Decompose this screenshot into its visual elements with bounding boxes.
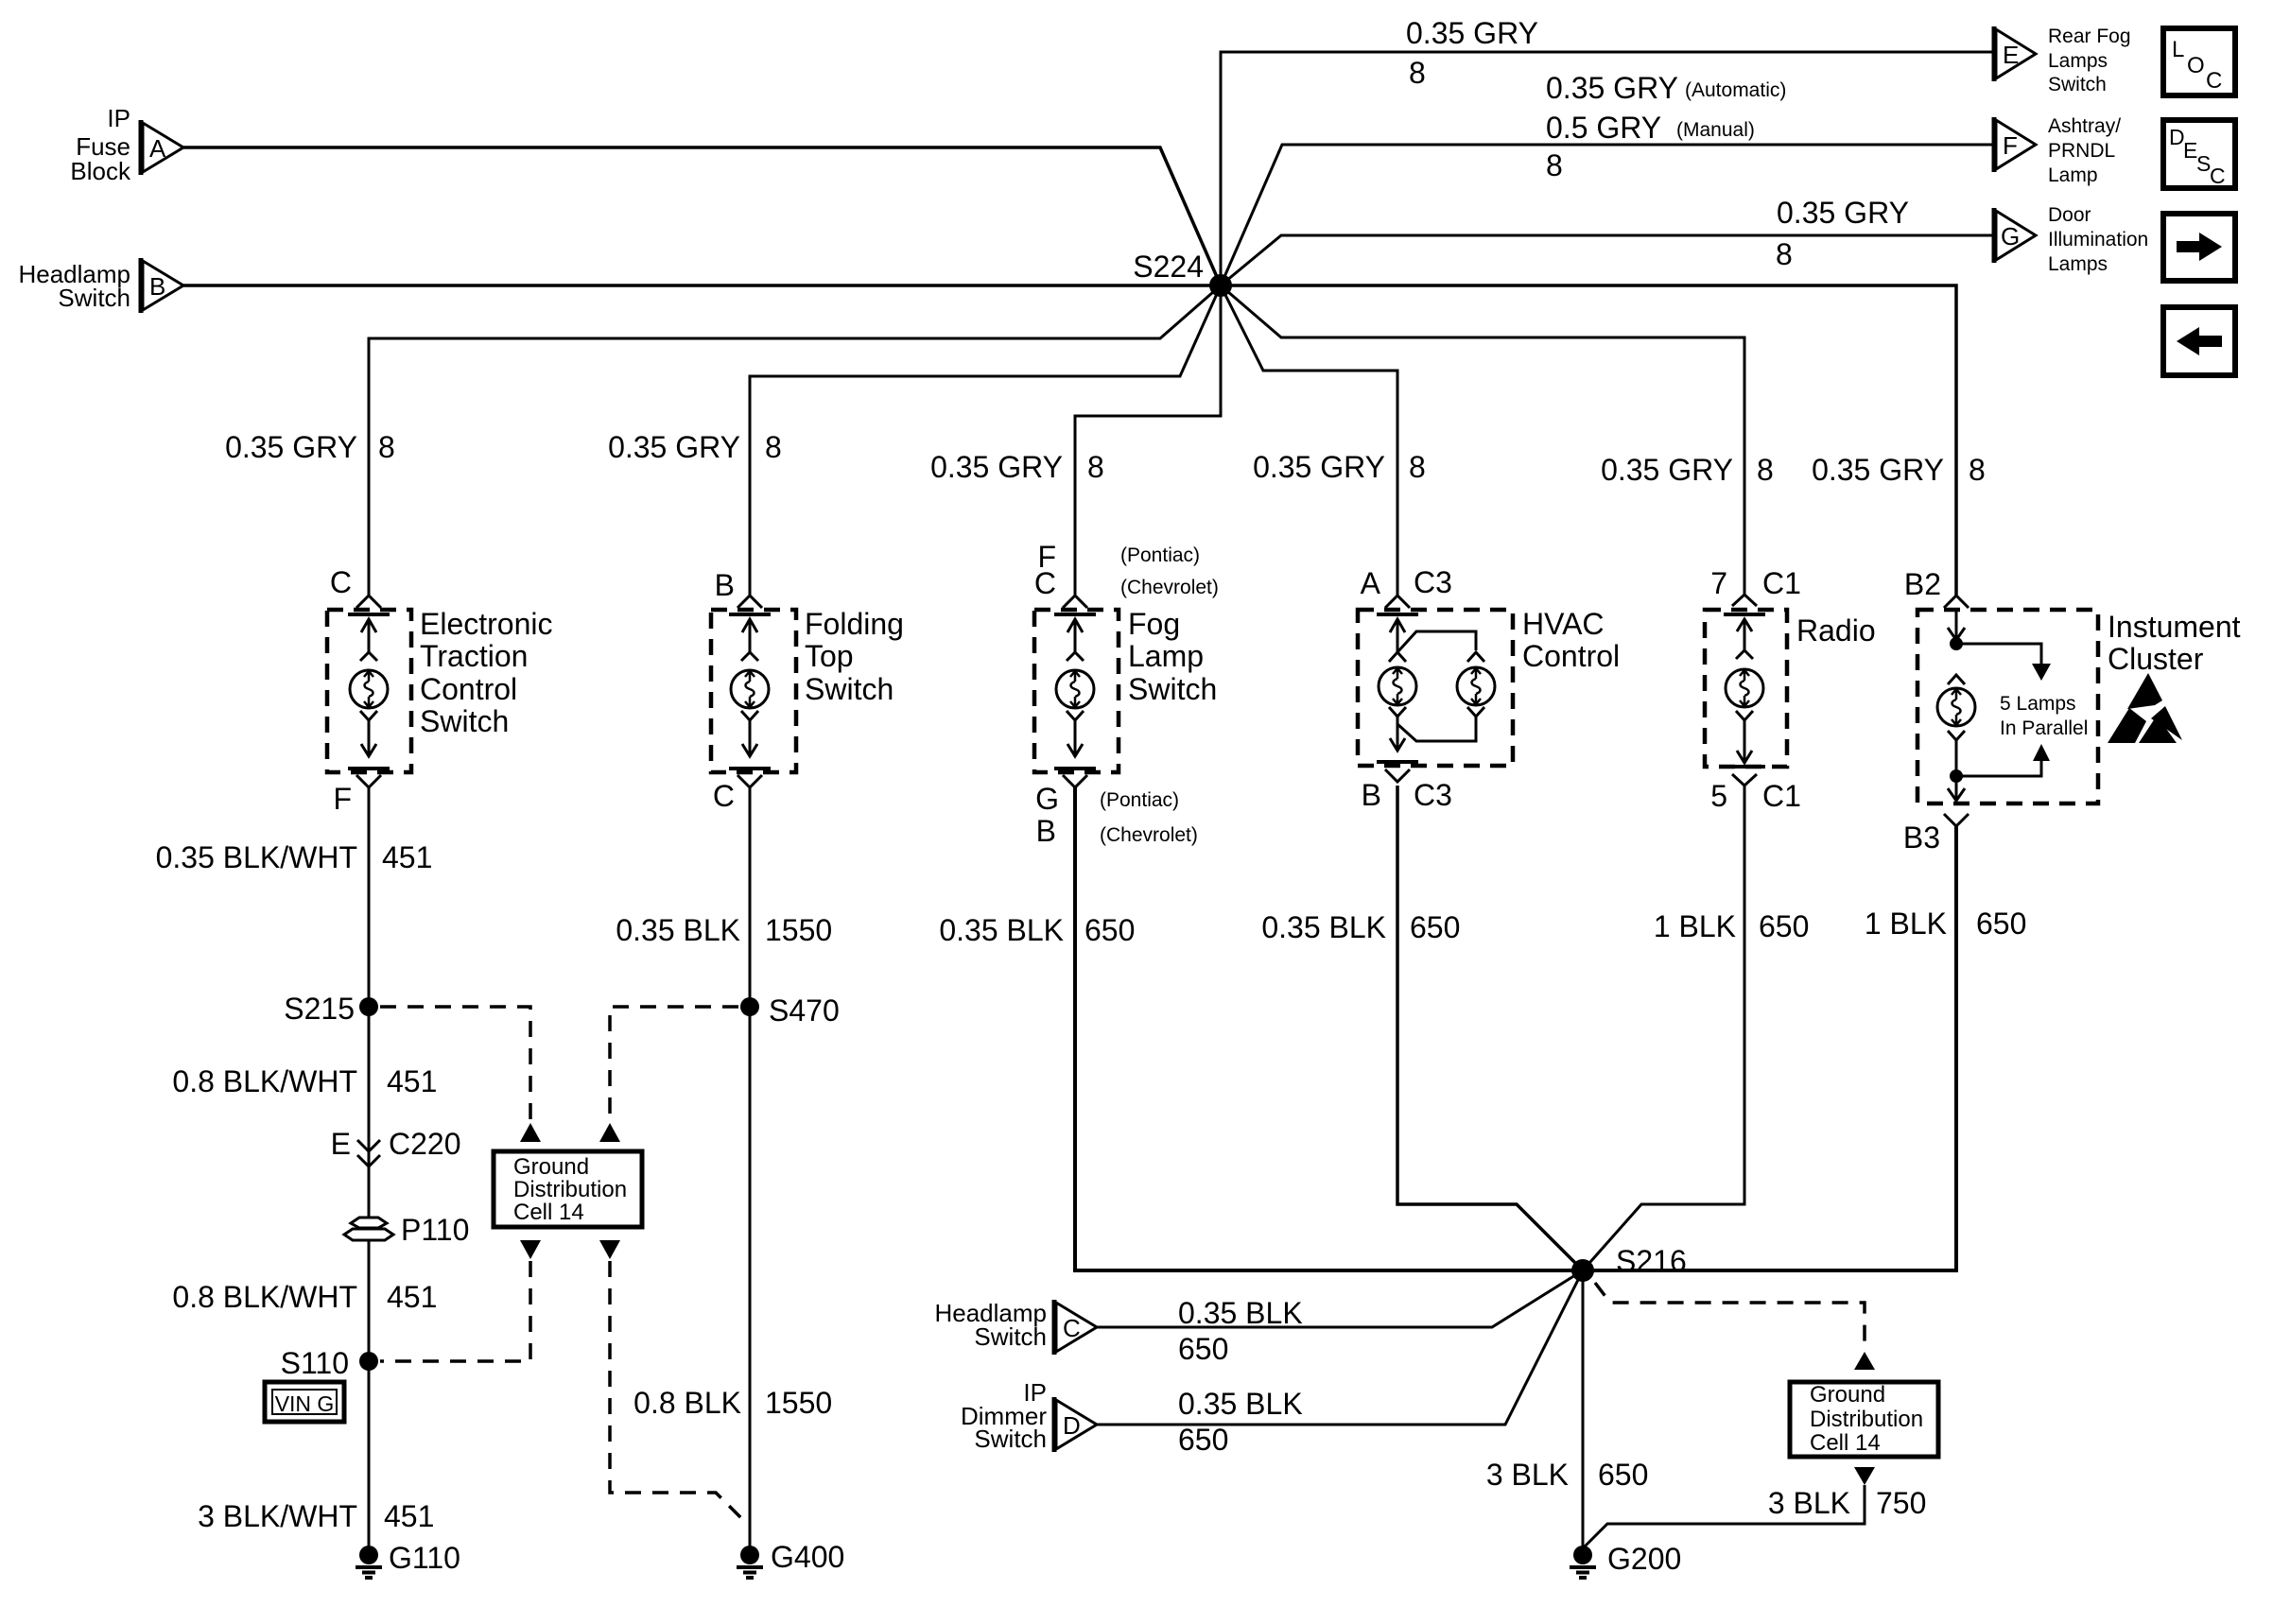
svg-text:C220: C220: [389, 1127, 461, 1161]
svg-text:B: B: [1362, 778, 1381, 812]
Radio internal circuit: [1724, 614, 1765, 659]
arrowhead up (S216 link): [1854, 1352, 1875, 1370]
svg-text:0.35 BLK: 0.35 BLK: [616, 913, 740, 947]
arrowhead down (S110 link): [520, 1240, 541, 1259]
label Ashtray/PRNDL Lamp: [2048, 115, 2121, 186]
Folding Top Switch (component box): [711, 610, 796, 772]
svg-text:IP: IP: [107, 104, 130, 132]
svg-text:(Chevrolet): (Chevrolet): [1100, 824, 1198, 846]
wire G: S224 to Door Illumination Lamps: [1221, 235, 1994, 285]
svg-text:650: 650: [1178, 1423, 1228, 1457]
svg-text:Folding: Folding: [805, 607, 904, 641]
wire Fog Lamp Switch to S216: [1075, 786, 1575, 1270]
svg-text:Switch: Switch: [805, 672, 894, 706]
svg-text:C: C: [1034, 566, 1056, 600]
label 0.35 GRY 8 (Folding Top branch): [608, 430, 782, 464]
HVAC Control (component box): [1358, 610, 1513, 766]
wire: S224 to Radio: [1221, 285, 1744, 596]
svg-text:B3: B3: [1903, 821, 1940, 855]
previous-page arrow box (left): [2163, 307, 2235, 375]
svg-text:0.35 GRY: 0.35 GRY: [608, 430, 740, 464]
dashed link S216 to Ground Distribution (right): [1595, 1283, 1865, 1350]
svg-text:Switch: Switch: [974, 1425, 1047, 1453]
arrowhead up (5 lamps parallel): [2033, 744, 2050, 761]
label Door Illumination Lamps: [2048, 204, 2148, 275]
wire ETC switch to G110: [368, 786, 371, 1550]
svg-text:Traction: Traction: [420, 639, 528, 673]
connector triangle F: [1994, 117, 2036, 172]
Electronic Traction Control Switch (component box): [327, 610, 411, 772]
svg-text:Radio: Radio: [1796, 613, 1876, 648]
svg-text:Switch: Switch: [58, 284, 130, 312]
pin 5 C1 (Radio bottom): [1710, 779, 1801, 813]
label 1 BLK 650 (Radio branch): [1654, 909, 1810, 943]
cluster parallel branch bottom: [1956, 756, 2041, 776]
wire cluster lamp to bottom junction: [1955, 740, 1958, 776]
label HVAC Control: [1522, 607, 1620, 673]
svg-text:C3: C3: [1414, 778, 1452, 812]
svg-text:Cell 14: Cell 14: [513, 1200, 584, 1225]
svg-text:0.35 GRY: 0.35 GRY: [1812, 453, 1944, 487]
wire IP Dimmer Switch to S216: [1097, 1270, 1583, 1425]
svg-text:0.35 BLK: 0.35 BLK: [1178, 1387, 1303, 1421]
connector triangle A: [141, 120, 183, 175]
svg-text:C: C: [330, 565, 352, 599]
Cluster internal entry arrow: [1948, 612, 1965, 640]
svg-text:Electronic: Electronic: [420, 607, 553, 641]
label 5 Lamps In Parallel: [2000, 693, 2088, 739]
arrowhead up (S215 link): [520, 1123, 541, 1142]
HVAC internal exit arrow: [1377, 707, 1484, 762]
wire Instrument Cluster to S216: [1583, 826, 1956, 1270]
wire: S224 to HVAC Control: [1221, 285, 1397, 596]
svg-text:C: C: [2210, 164, 2226, 188]
svg-text:Switch: Switch: [2048, 74, 2107, 95]
wire: S224 to Electronic Traction Control Switch: [369, 285, 1221, 596]
svg-text:Distribution: Distribution: [1810, 1407, 1923, 1432]
node: cluster top junction: [1950, 637, 1963, 650]
label 0.35 BLK 1550: [616, 913, 832, 947]
label 0.35 BLK 650 (HVAC branch): [1261, 910, 1460, 944]
svg-text:Ground: Ground: [513, 1154, 589, 1180]
svg-text:L: L: [2172, 37, 2184, 62]
svg-text:Ashtray/: Ashtray/: [2048, 115, 2121, 137]
connector chevron Folding Top top: [737, 596, 762, 608]
svg-text:Ground: Ground: [1810, 1382, 1885, 1408]
label 3 BLK 750: [1768, 1486, 1927, 1520]
svg-text:0.35 GRY: 0.35 GRY: [1601, 453, 1733, 487]
Ground Distribution Cell 14 box (right): [1790, 1382, 1938, 1457]
Folding Top internal circuit: [729, 614, 771, 661]
svg-text:P110: P110: [401, 1213, 469, 1247]
svg-text:Control: Control: [1522, 639, 1620, 673]
label 3 BLK 650: [1486, 1458, 1649, 1492]
connector chevron Cluster bottom: [1944, 814, 1969, 826]
svg-text:650: 650: [1976, 907, 2026, 941]
connector chevron HVAC bottom: [1385, 769, 1410, 782]
dashed link Ground Distribution to G400: [610, 1261, 747, 1524]
label 0.35 GRY (Automatic) / 0.5 GRY (Manual) / 8 (wire F): [1546, 71, 1786, 182]
ESD sensitive symbol: [2108, 673, 2182, 743]
label Rear Fog Lamps Switch: [2048, 26, 2131, 95]
connector triangle B: [141, 258, 183, 313]
svg-text:Rear Fog: Rear Fog: [2048, 26, 2131, 47]
Folding Top internal exit arrow: [729, 711, 771, 769]
label Folding Top Switch: [805, 607, 904, 706]
cluster lamp exit chevron: [1948, 731, 1965, 740]
svg-text:0.35 GRY: 0.35 GRY: [225, 430, 357, 464]
LOC reference box: [2163, 28, 2235, 95]
svg-text:Block: Block: [70, 157, 131, 185]
svg-text:650: 650: [1598, 1458, 1648, 1492]
svg-text:C: C: [713, 779, 735, 813]
label IP Fuse Block: [70, 104, 131, 185]
wire HVAC Control to S216: [1397, 786, 1583, 1270]
label 0.35 GRY 8 (wire E): [1406, 16, 1538, 90]
label 0.35 GRY 8 (Radio branch): [1601, 453, 1774, 487]
svg-text:8: 8: [378, 430, 395, 464]
label Electronic Traction Control Switch: [420, 607, 553, 738]
pass-through grommet P110: [344, 1213, 469, 1247]
svg-text:3 BLK: 3 BLK: [1486, 1458, 1569, 1492]
svg-text:Cell 14: Cell 14: [1810, 1430, 1881, 1456]
label IP Dimmer Switch: [961, 1378, 1047, 1453]
ETC internal exit arrow: [348, 711, 390, 769]
arrowhead down (750 wire link): [1854, 1467, 1875, 1485]
svg-text:(Chevrolet): (Chevrolet): [1120, 577, 1219, 598]
svg-text:Cluster: Cluster: [2108, 642, 2204, 676]
label 1 BLK 650 (Cluster branch): [1865, 907, 2027, 941]
Fog Lamp internal exit arrow: [1054, 711, 1096, 769]
svg-text:VIN G: VIN G: [275, 1391, 335, 1416]
wire 3 BLK 750: [1585, 1485, 1865, 1546]
dashed link Ground Distribution to S110: [380, 1261, 530, 1361]
lamp (ETC illumination): [350, 670, 388, 708]
svg-text:8: 8: [1969, 453, 1986, 487]
svg-text:650: 650: [1410, 910, 1460, 944]
pin A C3 (HVAC top): [1361, 565, 1452, 600]
label 0.35 GRY 8 (Instrument Cluster branch): [1812, 453, 1986, 487]
svg-text:Switch: Switch: [974, 1322, 1047, 1351]
label 0.35 GRY 8 (HVAC branch): [1253, 450, 1426, 484]
ETC internal circuit: [348, 614, 390, 661]
arrowhead down (G400 link): [599, 1240, 620, 1259]
lamp (Fog Lamp illumination): [1056, 670, 1094, 708]
Fog Lamp internal circuit: [1054, 614, 1096, 661]
svg-text:8: 8: [765, 430, 782, 464]
svg-text:0.35 GRY: 0.35 GRY: [1406, 16, 1538, 50]
DESC reference box: [2163, 120, 2235, 188]
wire Radio to S216: [1583, 786, 1744, 1270]
svg-text:Lamps: Lamps: [2048, 253, 2108, 275]
svg-text:650: 650: [1759, 909, 1809, 943]
Radio internal exit arrow: [1724, 711, 1765, 767]
splice S216: [1571, 1244, 1687, 1282]
svg-text:E: E: [331, 1127, 351, 1161]
label 0.35 BLK 650 (Fog branch): [939, 913, 1135, 947]
connector triangle G: [1994, 208, 2036, 263]
svg-text:8: 8: [1546, 148, 1563, 182]
svg-text:0.35 BLK: 0.35 BLK: [1178, 1296, 1303, 1330]
svg-text:451: 451: [382, 840, 432, 874]
Instrument Cluster (component box): [1917, 610, 2098, 803]
label 0.35 BLK 650 (Headlamp wire): [1178, 1296, 1303, 1366]
arrowhead up (S470 link): [599, 1123, 620, 1142]
svg-text:G: G: [2001, 222, 2020, 251]
svg-text:8: 8: [1757, 453, 1774, 487]
arrowhead down (5 lamps parallel): [2032, 664, 2051, 681]
pin B C3 (HVAC bottom): [1362, 778, 1452, 812]
cluster lamp entry chevron: [1948, 675, 1965, 684]
label Headlamp Switch (bottom): [934, 1299, 1047, 1351]
svg-text:Lamps: Lamps: [2048, 50, 2108, 72]
svg-text:750: 750: [1876, 1486, 1926, 1520]
svg-text:O: O: [2187, 53, 2205, 78]
svg-text:0.35 GRY: 0.35 GRY: [1253, 450, 1385, 484]
svg-text:Switch: Switch: [420, 704, 509, 738]
svg-text:S216: S216: [1616, 1244, 1687, 1278]
svg-text:PRNDL: PRNDL: [2048, 140, 2115, 162]
svg-text:C1: C1: [1762, 566, 1801, 600]
svg-text:C3: C3: [1414, 565, 1452, 599]
wire: S224 to Fog Lamp Switch: [1075, 285, 1221, 596]
svg-text:B: B: [149, 272, 165, 301]
dashed link S470 to Ground Distribution: [610, 1007, 738, 1119]
ground G200: [1570, 1542, 1681, 1578]
svg-text:Illumination: Illumination: [2048, 229, 2148, 251]
label 0.8 BLK/WHT 451 (upper): [172, 1064, 437, 1098]
svg-text:G110: G110: [389, 1541, 460, 1575]
svg-text:5: 5: [1710, 779, 1727, 813]
wire B: Headlamp Switch through S224 to Instrument Cluster: [183, 285, 1956, 596]
lamp (Cluster illumination): [1937, 688, 1975, 726]
svg-text:G200: G200: [1607, 1542, 1681, 1576]
connector chevron Fog Lamp top: [1063, 596, 1087, 608]
svg-text:3 BLK: 3 BLK: [1768, 1486, 1850, 1520]
wire A: IP Fuse Block to S224: [183, 147, 1221, 285]
svg-text:0.35 BLK: 0.35 BLK: [1261, 910, 1386, 944]
svg-text:C: C: [2206, 68, 2222, 94]
HVAC internal circuit: [1377, 614, 1484, 662]
svg-text:(Manual): (Manual): [1676, 119, 1755, 141]
pin 7 C1 (Radio top): [1710, 566, 1801, 600]
svg-text:8: 8: [1409, 56, 1426, 90]
splice S224: [1133, 250, 1232, 297]
splice S215: [284, 992, 378, 1026]
svg-text:0.5 GRY: 0.5 GRY: [1546, 111, 1661, 145]
svg-text:C1: C1: [1762, 779, 1801, 813]
svg-text:(Pontiac): (Pontiac): [1120, 544, 1200, 566]
wire: S224 to Folding Top Switch: [750, 285, 1221, 596]
Radio (component box): [1705, 610, 1787, 767]
svg-text:G400: G400: [771, 1540, 844, 1574]
lamp (Folding Top illumination): [731, 670, 769, 708]
svg-text:0.8 BLK: 0.8 BLK: [633, 1386, 741, 1420]
label 0.35 GRY 8 (Fog Lamp branch): [930, 450, 1104, 484]
label 0.8 BLK 1550: [633, 1386, 832, 1420]
connector chevron ETC bottom: [356, 775, 381, 787]
svg-text:0.35 GRY: 0.35 GRY: [1546, 71, 1678, 105]
svg-text:G: G: [1035, 782, 1059, 816]
svg-text:A: A: [1361, 566, 1381, 600]
svg-text:451: 451: [387, 1280, 437, 1314]
dashed link S215 to Ground Distribution: [380, 1007, 530, 1119]
svg-text:HVAC: HVAC: [1522, 607, 1605, 641]
svg-text:8: 8: [1087, 450, 1104, 484]
svg-text:8: 8: [1776, 237, 1793, 271]
label 3 BLK/WHT 451: [198, 1499, 434, 1533]
svg-text:B: B: [1036, 814, 1056, 848]
svg-text:0.8 BLK/WHT: 0.8 BLK/WHT: [172, 1064, 357, 1098]
svg-text:650: 650: [1084, 913, 1135, 947]
svg-text:Door: Door: [2048, 204, 2091, 226]
svg-text:B: B: [715, 568, 735, 602]
svg-text:(Pontiac): (Pontiac): [1100, 789, 1179, 811]
connector chevron HVAC top: [1385, 596, 1410, 608]
label 0.8 BLK/WHT 451 (lower): [172, 1280, 437, 1314]
svg-text:1550: 1550: [765, 913, 832, 947]
svg-text:S215: S215: [284, 992, 355, 1026]
svg-text:A: A: [149, 134, 166, 163]
svg-text:0.8 BLK/WHT: 0.8 BLK/WHT: [172, 1280, 357, 1314]
svg-text:1 BLK: 1 BLK: [1865, 907, 1947, 941]
label 0.35 GRY 8 (wire G): [1776, 196, 1909, 271]
connector triangle E: [1994, 26, 2036, 81]
svg-text:C: C: [1063, 1314, 1081, 1342]
svg-text:Instument: Instument: [2108, 610, 2241, 644]
svg-text:3 BLK/WHT: 3 BLK/WHT: [198, 1499, 357, 1533]
cluster parallel branch top: [1956, 644, 2041, 665]
wire F: S224 to Ashtray/PRNDL Lamp: [1221, 145, 1994, 285]
svg-text:F: F: [2003, 131, 2018, 160]
connector chevron Folding Top bottom: [737, 775, 762, 787]
svg-text:Switch: Switch: [1128, 672, 1217, 706]
splice S110: [281, 1346, 378, 1380]
ground G400: [737, 1540, 844, 1578]
svg-text:1550: 1550: [765, 1386, 832, 1420]
Cluster internal exit arrow: [1948, 776, 1965, 801]
svg-text:S470: S470: [769, 993, 840, 1028]
pin G/B (Fog Lamp Switch bottom): [1035, 782, 1198, 848]
svg-text:451: 451: [387, 1064, 437, 1098]
ground G110: [356, 1541, 460, 1578]
svg-text:0.35 BLK: 0.35 BLK: [939, 913, 1064, 947]
svg-text:Lamp: Lamp: [2048, 164, 2098, 186]
wire Headlamp Switch to S216: [1097, 1270, 1583, 1327]
pin F/C (Fog Lamp Switch top): [1034, 540, 1219, 600]
label 0.35 BLK 650 (IP Dimmer wire): [1178, 1387, 1303, 1457]
connector chevron Fog Lamp bottom: [1063, 775, 1087, 787]
svg-text:Lamp: Lamp: [1128, 639, 1204, 673]
Fog Lamp Switch (component box): [1034, 610, 1119, 772]
connector E C220: [331, 1127, 461, 1166]
svg-text:E: E: [2003, 41, 2019, 69]
svg-text:0.35 GRY: 0.35 GRY: [1777, 196, 1909, 230]
label 0.35 GRY 8 (ETC branch): [225, 430, 395, 464]
svg-text:451: 451: [384, 1499, 434, 1533]
lamp (HVAC left): [1379, 667, 1416, 705]
svg-text:0.35 BLK/WHT: 0.35 BLK/WHT: [156, 840, 357, 874]
svg-text:D: D: [1063, 1411, 1081, 1440]
next-page arrow box (right): [2163, 214, 2235, 281]
lamp (HVAC right): [1457, 667, 1495, 705]
svg-text:5 Lamps: 5 Lamps: [2000, 693, 2076, 715]
svg-text:F: F: [333, 782, 352, 816]
svg-text:(Automatic): (Automatic): [1685, 79, 1786, 101]
connector triangle C (Headlamp Switch): [1054, 1300, 1097, 1355]
wire E: S224 to Rear Fog Lamps Switch: [1221, 52, 1994, 285]
svg-text:In Parallel: In Parallel: [2000, 717, 2088, 739]
node: cluster bottom junction: [1950, 769, 1963, 783]
wire S216 to G200: [1582, 1270, 1585, 1550]
connector chevron Radio top: [1732, 595, 1757, 606]
label Headlamp Switch: [18, 260, 130, 312]
svg-text:1 BLK: 1 BLK: [1654, 909, 1736, 943]
svg-text:0.35 GRY: 0.35 GRY: [930, 450, 1063, 484]
connector chevron ETC top: [356, 596, 381, 608]
svg-text:Control: Control: [420, 672, 517, 706]
svg-text:Top: Top: [805, 639, 854, 673]
connector chevron Radio bottom: [1732, 774, 1757, 786]
svg-text:8: 8: [1409, 450, 1426, 484]
label 0.35 BLK/WHT 451: [156, 840, 433, 874]
svg-text:Fog: Fog: [1128, 607, 1180, 641]
wire Folding Top Switch to G400: [749, 786, 752, 1550]
connector triangle D (IP Dimmer Switch): [1054, 1397, 1097, 1452]
splice S470: [740, 993, 840, 1028]
svg-text:650: 650: [1178, 1332, 1228, 1366]
lamp (Radio illumination): [1726, 669, 1763, 707]
svg-text:7: 7: [1710, 566, 1727, 600]
connector chevron Cluster top: [1944, 596, 1969, 608]
label Fog Lamp Switch: [1128, 607, 1217, 706]
svg-text:S224: S224: [1133, 250, 1204, 284]
Ground Distribution Cell 14 box (left): [494, 1151, 642, 1227]
svg-text:S110: S110: [281, 1346, 349, 1380]
svg-text:B2: B2: [1904, 567, 1941, 601]
label Instument Cluster: [2108, 610, 2241, 676]
VIN G tag: [265, 1382, 344, 1422]
svg-text:Distribution: Distribution: [513, 1177, 627, 1202]
